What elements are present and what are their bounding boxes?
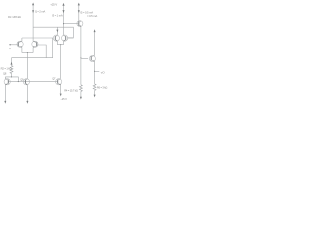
- transistor QL (mirror master, faces left): [4, 77, 10, 104]
- base wire + input terminal: [10, 44, 18, 46]
- base rail of bottom mirror: [8, 81, 57, 82]
- transistor QM (mirror out, faces right): [23, 79, 29, 104]
- collector wire up: [94, 31, 96, 55]
- base wire from middle column: [64, 23, 79, 25]
- current arrowhead I1: [32, 10, 34, 13]
- svg-text:Q7: Q7: [52, 77, 56, 81]
- transistor Q1 (input left): [9, 38, 23, 53]
- pair B joined emitters + tail: [22, 52, 33, 79]
- supply arrow (right column): [78, 3, 80, 22]
- resistor RE (right): [93, 84, 96, 98]
- svg-text:+25 V: +25 V: [50, 3, 57, 7]
- collector up to node: [21, 38, 23, 41]
- svg-text:R6 = 3 kΩ: R6 = 3 kΩ: [97, 85, 108, 89]
- svg-text:−25 V: −25 V: [60, 97, 67, 101]
- emitter down: [21, 47, 23, 52]
- svg-text:R2 = 1 kΩ: R2 = 1 kΩ: [1, 66, 12, 70]
- svg-text:I3 ≈ 1 mA: I3 ≈ 1 mA: [52, 13, 63, 17]
- svg-text:R1 = 28.6 kΩ: R1 = 28.6 kΩ: [8, 15, 21, 19]
- transistor QA-L (pair A left): [53, 35, 59, 45]
- transistor Q4 (pnp, top right): [63, 21, 83, 27]
- svg-text:R4 = 15.7 kΩ: R4 = 15.7 kΩ: [64, 88, 78, 92]
- svg-text:= 0.5 mA: = 0.5 mA: [87, 14, 97, 18]
- base wire right then down: [37, 45, 47, 58]
- node y=38 wire (Q1 collector to QA-L base): [22, 37, 54, 39]
- svg-text:I1 ≈ 2 mA: I1 ≈ 2 mA: [35, 10, 45, 14]
- transistor QR (output, right): [81, 29, 96, 84]
- supply arrow (middle column): [62, 3, 64, 35]
- transistor QC (tail source of pair A): [56, 79, 62, 97]
- resistor R4 (x=80.9): [80, 57, 83, 99]
- mirror top wire: [5, 76, 18, 81]
- rail node wire y=27.2: [33, 27, 73, 38]
- wire Q4 emitter down: [80, 27, 82, 58]
- pair A joined emitters + tail: [57, 44, 63, 78]
- emitter down: [94, 62, 96, 84]
- emitter down: [32, 47, 34, 52]
- transistor Q2 (input right, mirrored): [32, 41, 46, 58]
- bias line y=57.7 with riser: [12, 38, 53, 58]
- current arrow stub into QA-L collector: [56, 27, 58, 35]
- resistor R1 (left): [10, 58, 13, 77]
- svg-text:Q8: Q8: [3, 71, 7, 75]
- output node + stub: [94, 71, 99, 72]
- transistor QA-R (pair A right, mirrored): [62, 35, 74, 45]
- supply arrow (+25V feed, left column): [32, 3, 34, 42]
- svg-text:vO: vO: [101, 70, 106, 74]
